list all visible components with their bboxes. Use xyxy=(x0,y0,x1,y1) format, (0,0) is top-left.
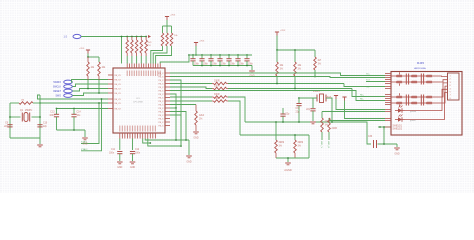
resistor R12 xyxy=(212,88,214,90)
pin header JP1 xyxy=(73,34,81,38)
junction R20 xyxy=(87,88,89,90)
ground GND C11 xyxy=(117,161,123,163)
IC U1 LPC1768 xyxy=(113,68,165,133)
svg-text:C14: C14 xyxy=(77,112,82,114)
junction C8 top xyxy=(246,54,248,56)
resistor R21 xyxy=(98,62,101,76)
LED1 yellow xyxy=(398,108,402,112)
wire Q2 left down xyxy=(313,98,317,108)
junction debug rail xyxy=(87,56,89,58)
supply flag +3V3 (boot) xyxy=(165,16,169,18)
wire TXP trunk xyxy=(170,72,313,74)
wire C33 right xyxy=(378,143,398,145)
wire clk feed xyxy=(299,97,317,99)
capacitor C8 xyxy=(246,55,248,59)
svg-text:SHIELD1: SHIELD1 xyxy=(393,126,403,128)
junction VDDA c xyxy=(73,129,75,131)
wire R14 net xyxy=(228,101,240,135)
svg-text:XTAL2: XTAL2 xyxy=(81,148,88,151)
wire shield to module xyxy=(378,126,391,128)
wire term gnd tap xyxy=(287,158,289,162)
wire Q2 right to line1 xyxy=(326,98,332,122)
junction shield b xyxy=(383,143,385,145)
svg-text:25MHz: 25MHz xyxy=(25,110,33,112)
LED2 green xyxy=(398,117,402,121)
junction C3 bottom xyxy=(201,65,203,67)
junction VCC xyxy=(188,54,190,56)
svg-text:PA_XX: PA_XX xyxy=(115,98,122,101)
svg-text:12k4: 12k4 xyxy=(199,115,205,117)
capacitor C33 xyxy=(373,140,375,148)
resistor R19 feedback xyxy=(10,102,19,104)
wire bus A to gnd xyxy=(188,140,190,155)
resistor R4 xyxy=(135,40,138,53)
junction C2 top xyxy=(192,54,194,56)
svg-text:PB_X: PB_X xyxy=(158,126,164,128)
wire R6 to U1 pin xyxy=(145,56,147,64)
supply flag +3V3 (debug) xyxy=(86,49,90,51)
junction crystal right xyxy=(39,116,41,118)
resistor R14 xyxy=(212,100,214,102)
resistor R15 xyxy=(276,50,278,62)
wire U1 to R13 xyxy=(170,96,212,98)
svg-text:yellow: yellow xyxy=(410,111,416,113)
junction C5 bottom xyxy=(219,65,221,67)
svg-text:SWDIO: SWDIO xyxy=(53,82,61,84)
capacitor C31 xyxy=(298,98,300,103)
svg-text:PB_X: PB_X xyxy=(158,87,164,89)
wire U1 pin 108 join xyxy=(170,107,176,109)
svg-text:1M: 1M xyxy=(21,100,24,102)
junction R16 bottom xyxy=(294,88,296,90)
capacitor C10 xyxy=(37,124,42,126)
svg-text:330R: 330R xyxy=(214,85,220,87)
wire R11 to U1 pin xyxy=(153,46,167,64)
svg-text:RD-: RD- xyxy=(360,99,364,101)
svg-text:PA_XX: PA_XX xyxy=(115,102,122,105)
svg-text:100n: 100n xyxy=(230,64,236,66)
junction R24 top xyxy=(294,134,296,136)
resistor R24 xyxy=(294,135,296,140)
wire XTAL1 to U1 xyxy=(38,95,109,99)
wire pin1 drop xyxy=(121,37,123,64)
svg-text:49R9: 49R9 xyxy=(298,142,304,144)
svg-text:100n: 100n xyxy=(212,64,218,66)
svg-text:25MHz: 25MHz xyxy=(313,91,321,93)
junction R16 top xyxy=(294,49,296,51)
svg-text:SHIELD2: SHIELD2 xyxy=(393,129,403,131)
junction bus B xyxy=(180,145,182,147)
svg-text:PA_XX: PA_XX xyxy=(115,83,122,86)
wire U1 to R22 xyxy=(170,104,196,106)
svg-text:PU: PU xyxy=(148,45,151,47)
wire R3 to U1 pin xyxy=(131,56,133,64)
ground GND R22 xyxy=(193,131,199,133)
junction R15 bottom xyxy=(276,83,278,85)
svg-text:PB_X: PB_X xyxy=(158,80,164,82)
resistor R11 boot xyxy=(166,33,169,46)
wire XTAL2 to U1 xyxy=(40,102,108,104)
ground GND C32 xyxy=(310,121,316,123)
svg-text:100n: 100n xyxy=(221,64,227,66)
wire LED2 cathode xyxy=(329,120,385,122)
wire v3 pin111 xyxy=(170,112,186,141)
wire boot rail drop 1 xyxy=(162,26,164,33)
wire SWCLK to U1 xyxy=(73,84,109,87)
svg-text:+3V3: +3V3 xyxy=(280,30,286,32)
junction C6 top xyxy=(228,54,230,56)
wire LED2 anode xyxy=(345,101,386,119)
capacitor C30 xyxy=(282,108,284,114)
wire +3V3 down xyxy=(195,46,197,55)
resistor R13 xyxy=(212,96,214,98)
svg-text:PB_X: PB_X xyxy=(158,105,164,107)
svg-text:LED_Y: LED_Y xyxy=(320,141,322,148)
wire U1 pin to gnd drop xyxy=(170,94,176,108)
wire TXN trunk xyxy=(170,77,385,78)
svg-text:LED_G: LED_G xyxy=(327,141,329,148)
capacitor C2 xyxy=(192,55,194,59)
junction C5 top xyxy=(219,54,221,56)
wire C11 gnd xyxy=(119,154,121,161)
junction v3 xyxy=(185,139,187,141)
wire C33 gnd xyxy=(396,144,398,147)
junction node R2 top xyxy=(126,36,128,38)
svg-text:330R: 330R xyxy=(214,80,220,82)
junction line1 ext xyxy=(331,121,333,123)
supply flag +3V3 (LED1) xyxy=(334,95,338,97)
svg-text:C10: C10 xyxy=(43,123,48,125)
junction R23 top xyxy=(275,121,277,123)
wire LED1 cathode xyxy=(322,111,385,113)
svg-text:GND: GND xyxy=(186,162,191,164)
svg-text:+3V3: +3V3 xyxy=(170,15,176,17)
capacitor C14 xyxy=(73,109,75,115)
wire R11 net xyxy=(228,83,344,85)
supply flag +3V3 (LED2) xyxy=(342,96,346,98)
svg-text:C13: C13 xyxy=(50,112,55,114)
svg-text:+3V3: +3V3 xyxy=(199,41,205,43)
resistor R11 xyxy=(212,83,214,85)
svg-text:PB_X: PB_X xyxy=(158,115,164,117)
svg-text:GND: GND xyxy=(130,167,135,169)
svg-text:PA_XX: PA_XX xyxy=(115,74,122,77)
svg-text:PB_X: PB_X xyxy=(158,119,164,121)
svg-text:330R: 330R xyxy=(214,98,220,100)
wire TCT short xyxy=(366,81,385,83)
resistor R20 xyxy=(87,62,90,76)
wire VDDA gnd drop xyxy=(84,130,86,137)
wire R10 to U1 pin xyxy=(151,46,163,64)
junction crystal left xyxy=(9,116,11,118)
svg-text:100n: 100n xyxy=(203,64,209,66)
junction C31 top xyxy=(298,97,300,99)
svg-text:PB_X: PB_X xyxy=(158,91,164,93)
junction C7 bottom xyxy=(237,65,239,67)
wire RESET to U1 xyxy=(73,89,109,92)
svg-text:GND: GND xyxy=(394,154,399,156)
ground GND VDDA xyxy=(82,137,88,139)
crystal Q1 xyxy=(10,116,21,118)
crystal right rail xyxy=(39,95,41,138)
wire LED1 anode xyxy=(336,99,385,110)
wire net line1 xyxy=(245,121,332,123)
junction node R3 top xyxy=(131,36,133,38)
wire termination rail xyxy=(276,157,309,159)
net label wire OSC1 xyxy=(81,103,99,144)
crystal bottom rail xyxy=(10,137,40,139)
junction OSC1 xyxy=(98,102,100,104)
capacitor C9 xyxy=(7,124,12,126)
wire bottom bus A xyxy=(145,139,189,141)
svg-text:GND: GND xyxy=(82,144,87,146)
svg-text:AGND: AGND xyxy=(284,168,292,172)
svg-text:TD-: TD- xyxy=(366,87,370,89)
cap bank bottom rail xyxy=(193,65,252,67)
ground GND C33 xyxy=(394,147,400,149)
junction bottom pin C xyxy=(149,142,151,144)
resistor R25 xyxy=(321,112,323,119)
junction bus A xyxy=(175,139,177,141)
svg-text:PB_X: PB_X xyxy=(158,108,164,110)
svg-text:PA_XX: PA_XX xyxy=(115,79,122,82)
wire TXP trunk b xyxy=(313,73,385,76)
wire v1 pin80 xyxy=(170,80,181,146)
LED2 wiring xyxy=(405,93,448,120)
junction bank flag xyxy=(195,54,197,56)
wire R12 to U1 pin xyxy=(156,46,172,64)
resistor R16 xyxy=(294,50,296,62)
svg-text:HR911105A: HR911105A xyxy=(414,67,426,70)
svg-text:RJ45: RJ45 xyxy=(417,61,424,65)
svg-text:PA_XX: PA_XX xyxy=(115,92,122,95)
capacitor C4 xyxy=(210,55,212,59)
junction C4 top xyxy=(210,54,212,56)
RJ45 left pin stubs xyxy=(385,73,391,75)
junction C8 bottom xyxy=(246,65,248,67)
wire gnd drop cont xyxy=(175,108,177,140)
wire +3V3 to boot rail xyxy=(166,20,168,26)
svg-text:100n: 100n xyxy=(49,115,55,117)
wire VDDA filter xyxy=(57,108,109,110)
resistor R3 xyxy=(131,40,134,53)
wire net line2 xyxy=(240,134,309,136)
junction VDDA a xyxy=(56,108,58,110)
wire RXN trunk xyxy=(352,89,385,97)
wire bank to ground xyxy=(251,66,253,71)
svg-text:RESET: RESET xyxy=(53,91,61,93)
wire bottom pin C xyxy=(143,139,151,144)
wire debug rail xyxy=(87,54,89,58)
svg-text:PB_X: PB_X xyxy=(158,73,164,75)
junction R17 bottom xyxy=(314,76,316,78)
svg-text:100n: 100n xyxy=(194,64,200,66)
resistor R17 xyxy=(314,50,316,57)
wire R4 to U1 pin xyxy=(136,56,138,64)
wire mid rail xyxy=(277,49,315,51)
svg-text:PB_X: PB_X xyxy=(158,98,164,100)
junction pin 108 xyxy=(175,107,177,109)
net label VCC3V3 flag xyxy=(148,35,151,38)
wire RCT trunk xyxy=(170,91,385,101)
svg-text:GND: GND xyxy=(117,167,122,169)
wire VCC to U1 pin15 xyxy=(160,55,189,64)
wire U1 to R14 xyxy=(170,100,212,102)
junction node R4 top xyxy=(136,36,138,38)
svg-text:100n: 100n xyxy=(239,64,245,66)
svg-text:PA_XX: PA_XX xyxy=(115,108,122,111)
wire SWDIO to U1 xyxy=(72,80,109,83)
junction C6 bottom xyxy=(228,65,230,67)
svg-text:330R: 330R xyxy=(214,94,220,96)
junction VDDA b xyxy=(73,108,75,110)
pin header SWO xyxy=(64,94,73,98)
crystal left rail xyxy=(9,103,11,138)
junction C30 xyxy=(282,121,284,123)
ground GND C12 xyxy=(130,161,136,163)
wire R5 to U1 pin xyxy=(140,56,142,64)
wire R2 to U1 pin xyxy=(126,56,128,64)
svg-text:1%: 1% xyxy=(298,69,301,71)
RJ45 internal routing xyxy=(440,75,448,78)
resistor R5 xyxy=(140,40,143,53)
capacitor C5 xyxy=(219,55,221,59)
junction XTAL2 xyxy=(39,102,41,104)
wire U1 bottom cap1 xyxy=(119,139,121,151)
svg-text:C31: C31 xyxy=(296,108,301,110)
capacitor C12 xyxy=(130,151,135,153)
wire U1 to R12 xyxy=(170,87,212,89)
junction C31 bottom xyxy=(298,121,300,123)
capacitor C32 xyxy=(310,108,315,110)
svg-text:GND: GND xyxy=(193,138,198,140)
svg-text:PB_X: PB_X xyxy=(158,101,164,103)
junction pin1 drop xyxy=(121,36,123,38)
resistor R23 xyxy=(275,122,277,140)
pin header SWCLK xyxy=(64,85,73,89)
pin header SWDIO xyxy=(64,80,73,84)
wire R12 net xyxy=(228,88,352,90)
pin header RESET xyxy=(64,89,73,93)
junction OSC2 xyxy=(101,98,103,100)
resistor R6 xyxy=(145,40,148,53)
wire VDDA rail xyxy=(57,129,86,131)
wire SWO to U1 xyxy=(73,93,109,96)
transformer T2 primary/secondary xyxy=(396,96,403,99)
svg-text:PB_X: PB_X xyxy=(158,84,164,86)
resistor R2 xyxy=(126,40,129,53)
svg-text:1%: 1% xyxy=(199,119,202,121)
svg-text:100n: 100n xyxy=(248,64,254,66)
crystal Q2 xyxy=(316,95,318,102)
wire U1 pin 115 xyxy=(170,115,181,146)
svg-text:PA_XX: PA_XX xyxy=(115,88,122,91)
svg-text:PB_X: PB_X xyxy=(158,122,164,124)
junction shield a2 xyxy=(379,126,381,128)
svg-text:49R9: 49R9 xyxy=(279,142,285,144)
junction C7 top xyxy=(237,54,239,56)
capacitor C3 xyxy=(201,55,203,59)
RJ45 module outline xyxy=(391,72,462,136)
wire to ground crystal xyxy=(39,138,41,144)
svg-text:100n: 100n xyxy=(109,153,115,155)
wire boot rail drop 2 xyxy=(166,26,168,33)
resistor R22 xyxy=(195,105,197,112)
supply flag +3V3 (mid) xyxy=(275,31,279,33)
wire bottom bus B xyxy=(148,139,181,147)
RJ45 pin box xyxy=(448,73,460,100)
svg-text:1%: 1% xyxy=(318,64,321,66)
wire JP1 to pull-up rail xyxy=(81,36,146,38)
svg-text:220R: 220R xyxy=(332,128,338,130)
cap bank top rail xyxy=(189,54,252,56)
svg-text:1%: 1% xyxy=(280,69,283,71)
junction term tap xyxy=(287,157,289,159)
wire shield drop xyxy=(383,130,385,145)
resistor R12 boot xyxy=(170,33,173,46)
wire R20 to net xyxy=(87,80,89,89)
wire R13 net xyxy=(228,97,245,122)
junction node R6 top xyxy=(145,36,147,38)
junction shield a xyxy=(383,126,385,128)
wire +3V3 mid down xyxy=(276,36,278,51)
ground GND bus xyxy=(186,155,192,157)
capacitor C7 xyxy=(237,55,239,59)
junction C3 top xyxy=(201,54,203,56)
wire RXP trunk xyxy=(344,84,385,87)
junction rail left xyxy=(276,49,278,51)
svg-text:C12: C12 xyxy=(135,149,140,151)
resistor R10 boot xyxy=(161,33,164,46)
resistor R26 xyxy=(328,118,330,121)
junction R21 xyxy=(98,92,100,94)
svg-text:1%: 1% xyxy=(298,146,301,148)
svg-text:SWO: SWO xyxy=(56,96,62,98)
LED1 wiring xyxy=(405,89,448,110)
transformer T1 primary/secondary xyxy=(396,75,403,78)
capacitor C11 xyxy=(117,151,122,153)
svg-text:LPC1768: LPC1768 xyxy=(133,102,143,104)
svg-text:1%: 1% xyxy=(279,146,282,148)
svg-text:PB_X: PB_X xyxy=(158,77,164,79)
capacitor C13 xyxy=(56,109,58,115)
svg-text:PB_X: PB_X xyxy=(158,94,164,96)
svg-text:PB_X: PB_X xyxy=(158,112,164,114)
supply flag +3V3 (bank) xyxy=(194,42,198,44)
wire U1 bottom cap2 xyxy=(132,139,134,151)
svg-text:3V3: 3V3 xyxy=(327,97,332,99)
wire C12 gnd xyxy=(132,154,134,161)
wire R21 to net xyxy=(98,80,100,93)
wire U1 to R11 xyxy=(170,83,212,85)
svg-text:+3V3: +3V3 xyxy=(79,48,85,50)
ground GND bank xyxy=(249,70,255,72)
junction node R5 top xyxy=(140,36,142,38)
svg-text:SWCLK: SWCLK xyxy=(53,87,62,89)
net label wire OSC2 xyxy=(81,99,102,151)
junction C4 bottom xyxy=(210,65,212,67)
svg-text:100n: 100n xyxy=(135,153,141,155)
wire line1 ext xyxy=(332,122,371,144)
svg-text:C33: C33 xyxy=(368,136,373,138)
ground AGND term xyxy=(285,162,291,164)
ground GND crystal xyxy=(37,144,43,146)
wire boot rail drop 3 xyxy=(171,26,173,33)
capacitor C6 xyxy=(228,55,230,59)
